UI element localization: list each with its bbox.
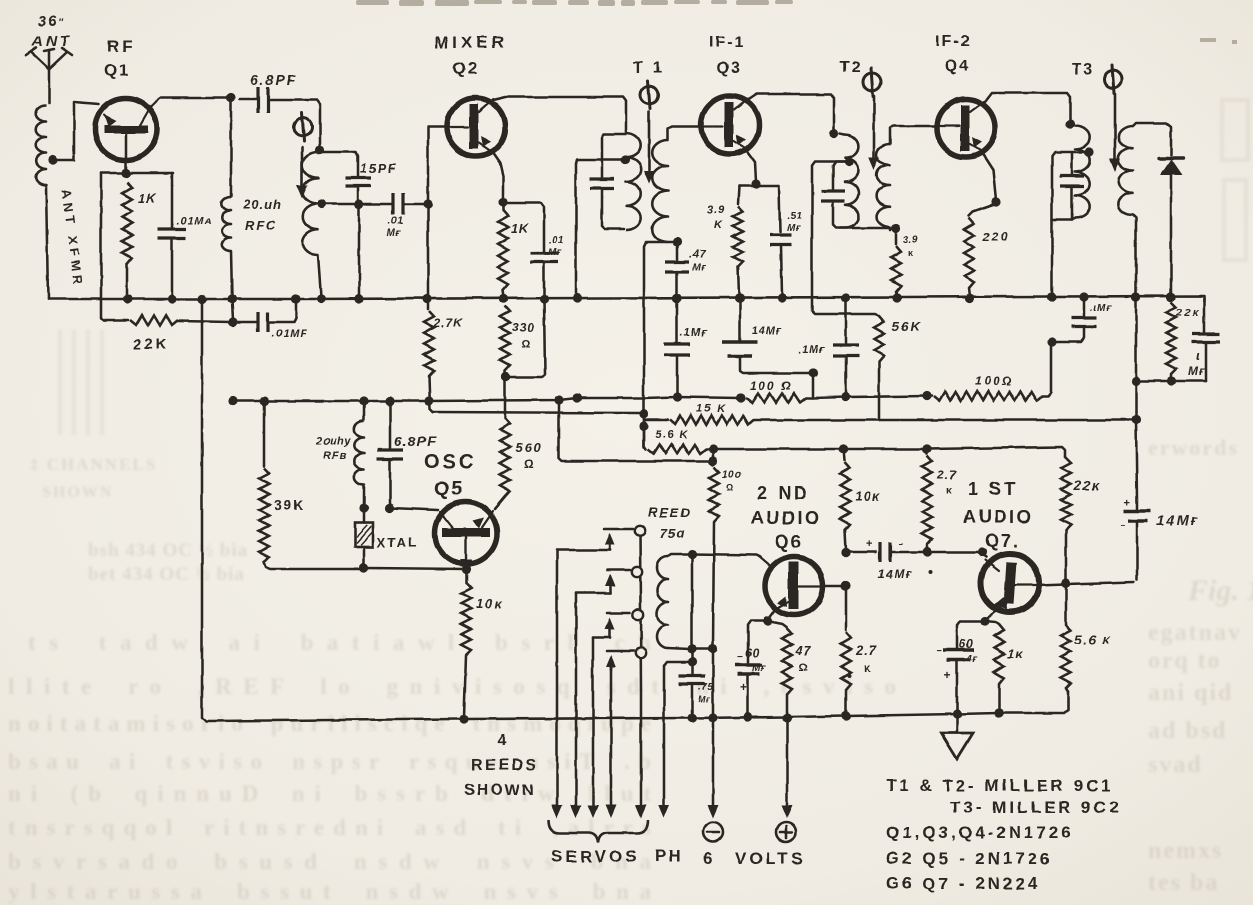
capacitor .51MF [770,235,792,303]
crystal XTAL [355,508,373,573]
svg-text:.01: .01 [549,235,564,246]
svg-text:1K: 1K [511,221,530,236]
svg-text:1K: 1K [138,191,157,206]
svg-text:10օ: 10օ [722,470,741,481]
svg-text:Fig. 1: Fig. 1 [1187,574,1253,607]
svg-text:2.7K: 2.7K [433,316,464,330]
servo line 2 [571,593,582,818]
label ANT XFMR [59,189,86,289]
label 56K [892,319,922,334]
label 14MF a [752,325,783,337]
transformer T2 secondary [877,126,936,230]
bus bottom horizontal [460,691,1068,719]
svg-text:−: − [898,539,903,549]
resistor R 22K (Q7 base) [1061,457,1071,588]
svg-text:220: 220 [982,230,1009,244]
svg-text:14Mғ: 14Mғ [878,567,913,581]
svg-text:10ᴋ: 10ᴋ [476,596,504,611]
label 5.6K h [655,429,689,441]
svg-text:75ɑ: 75ɑ [660,526,685,541]
label 22K det [1175,307,1200,319]
resistor R 56K [874,314,884,420]
svg-text:2 ND: 2 ND [757,483,810,503]
svg-text:Q2: Q2 [452,59,479,78]
svg-text:Q6: Q6 [775,532,803,552]
wire Q6 collector [821,581,850,590]
label 220 [982,230,1009,244]
svg-text:Mғ: Mғ [692,263,706,274]
parts list line 3 [886,823,1074,842]
svg-text:−: − [1120,521,1125,530]
bus main horizontal [48,296,1204,332]
svg-text:tes ba: tes ba [1148,870,1219,896]
wire Q4 collector to T3 [985,93,1075,129]
reed relay coil [657,549,697,722]
choke 20uhy RFC [354,401,368,513]
svg-text:ᴋ: ᴋ [946,485,952,496]
svg-text:bsh 434 OC ½ bia: bsh 434 OC ½ bia [88,540,248,561]
svg-text:SERVOS: SERVOS [551,847,640,866]
wire Q3 emitter node [738,150,780,232]
svg-text:560: 560 [515,440,543,455]
svg-text:39K: 39K [274,497,306,513]
svg-text:PH: PH [655,846,683,865]
svg-text:330: 330 [512,320,535,334]
label 1K mixer [511,221,530,236]
capacitor .1MF (IF bypass 2) [833,293,859,401]
svg-text:15PF: 15PF [360,161,397,176]
svg-text:.51: .51 [787,211,802,222]
label 20.uh RFC [242,197,282,233]
svg-text:Mғ: Mғ [698,694,711,704]
svg-text:REED: REED [648,505,692,520]
label 6.8PF osc [394,433,436,449]
label 2.7K q6 [855,643,877,675]
label 47 q6 [794,643,811,674]
svg-text:6.8PF: 6.8PF [394,433,436,449]
diode detector [1159,158,1183,302]
svg-text:22ᴋ: 22ᴋ [1073,478,1100,493]
svg-text:2օuhy: 2օuhy [315,435,351,447]
svg-text:RFʙ: RFʙ [323,450,347,462]
tuning slug symbol T3 [1104,65,1122,172]
label 100 vertical [722,470,741,493]
label 100 ohm b [975,374,1014,388]
avc line left segment [228,393,745,405]
svg-text:Ω: Ω [524,457,534,471]
svg-text:6: 6 [703,849,712,868]
resistor R 3.9 (T2) [891,228,902,303]
svg-text:60: 60 [959,637,973,651]
capacitor T3 tank [1047,152,1089,302]
svg-text:AUDIO: AUDIO [963,507,1034,527]
svg-text:100 Ω: 100 Ω [750,379,793,393]
resistor R 22K (detector load) [1166,292,1176,381]
svg-text:Q3: Q3 [716,60,741,77]
label IF-1 Q3 [709,34,745,77]
capacitor .01MF (Q1 emitter) [158,173,186,304]
label T1 [633,60,665,77]
svg-text:ani qid: ani qid [1148,680,1233,706]
parts list line 2 [950,798,1121,817]
svg-text:T2: T2 [840,59,863,76]
svg-text:3.9: 3.9 [707,204,725,216]
svg-text:Q4: Q4 [945,58,970,75]
svg-text:.01MF: .01MF [272,328,308,340]
svg-text:SHOWN: SHOWN [42,484,113,501]
wire Q4 emitter [969,153,1001,216]
svg-text:.1Mғ: .1Mғ [680,327,708,339]
svg-text:60: 60 [745,646,759,660]
svg-text:15 K: 15 K [696,403,727,415]
svg-text:14Mғ: 14Mғ [1157,512,1199,528]
label 560 [515,440,543,471]
wire T1 top feed [572,160,625,303]
svg-text:ɩ: ɩ [1196,348,1200,363]
svg-text:.75: .75 [698,682,713,693]
resistor R 2.7K [422,206,434,412]
label 10K osc [476,596,504,611]
label .51MF [787,211,802,234]
svg-text:‡ CHANNELS: ‡ CHANNELS [30,455,157,474]
svg-text:5.6 ᴋ: 5.6 ᴋ [1075,632,1112,647]
wire Q7 base [927,547,987,557]
svg-text:RFC: RFC [245,218,278,233]
label .1MF c [1090,303,1113,314]
wire left vertical drop [197,294,460,721]
transistor Q4 (IF-2) [937,99,995,157]
svg-text:14Mғ: 14Mғ [752,325,783,337]
label 22K q7 [1073,478,1100,493]
label 36 ANT [31,13,72,50]
label 14MF out [1157,512,1199,528]
ground symbol [941,714,973,759]
label 10K q6 [855,489,881,504]
label 1K [138,191,157,206]
capacitor .01MF (mixer input) [359,193,433,215]
resistor R 1K (Q1 emitter) [101,173,173,304]
label IF-2 Q4 [935,33,971,75]
capacitor .75MF [679,676,705,684]
svg-text:G6 Q7 - 2N224: G6 Q7 - 2N224 [886,874,1040,893]
svg-text:RF: RF [107,37,136,56]
wire det load join [1136,376,1206,385]
resistor R 10K (Q6 base) [839,444,850,557]
svg-text:Q1: Q1 [104,61,131,80]
transformer T2 primary [840,134,859,228]
label SERVOS [551,847,640,866]
svg-text:VOLTS: VOLTS [735,849,805,868]
label 15K [696,403,727,415]
label 1MF [1188,348,1206,378]
tuning slug symbol T2 [863,68,881,170]
capacitor 14MF (AVC) [722,293,818,396]
wire Q6 emitter node [763,609,776,626]
svg-text:Ω: Ω [726,483,733,493]
minus 6V line [708,449,717,466]
svg-text:.ɩMғ: .ɩMғ [1090,303,1113,314]
svg-text:5.6 K: 5.6 K [655,429,689,441]
wire Q7 emitter node [980,614,992,626]
wire Q1 collector to 6.8PF node [150,93,236,108]
svg-text:6.8PF: 6.8PF [250,72,297,88]
tuning slug symbol (RF coil) [294,113,312,198]
line B from 2.7K [433,412,644,414]
osc emitter line [364,564,471,573]
resistor R 5.6K (Q7) [1061,583,1071,691]
capacitor 14MF coupling [841,538,925,562]
wire Q2 emitter [491,150,508,207]
capacitor .47MF [665,242,689,303]
transistor Q6 (2nd audio) [758,556,823,615]
svg-text:Q1,Q3,Q4-2N1726: Q1,Q3,Q4-2N1726 [886,823,1074,842]
capacitor 1MF [1192,334,1220,381]
wire Q7 collector [1037,578,1134,587]
wire long right vertical [1131,292,1140,500]
servo common vertical [636,531,647,818]
svg-text:+: + [866,538,872,550]
svg-text:.01Mᴀ: .01Mᴀ [176,215,212,227]
wire T2 tap to 56K [812,162,876,314]
label XTAL [377,535,418,550]
svg-text:ANT: ANT [31,33,72,50]
svg-text:+: + [944,668,951,682]
wire Q2 base [428,127,447,204]
svg-text:Mғ: Mғ [548,247,562,258]
capacitor .1MF (IF bypass 1) [664,293,690,401]
label 330 [512,320,535,350]
antenna 36-inch whip [26,48,72,103]
label 22K [133,336,170,353]
svg-text:.47: .47 [689,249,706,261]
resistor R 47 (Q6) [768,621,792,715]
parts list line 1 [886,776,1114,795]
label REED 75 [648,505,692,541]
label .1MF a [680,327,708,339]
resistor R 2.7K (Q7 base) [922,444,932,574]
svg-text:Mғ: Mғ [752,663,766,674]
svg-text:Mғ: Mғ [387,228,401,239]
label 1K q7 [1007,646,1024,661]
label PH [655,846,683,865]
resistor R 2.7K (Q6) [841,581,851,720]
svg-text:svad: svad [1148,752,1203,778]
svg-text:egatnav: egatnav [1148,620,1242,646]
label OSC Q5 [424,451,476,500]
reed contact 1 [557,526,645,550]
svg-text:4: 4 [497,732,506,749]
svg-text:K: K [714,219,723,231]
svg-text:100Ω: 100Ω [975,374,1014,388]
svg-text:+: + [740,680,747,694]
resistor R 10K (osc) [459,569,471,724]
svg-text:−: − [737,652,743,663]
servo line 3 [588,637,599,818]
label 6.8PF [250,72,297,88]
capacitor 14MF (output) [1120,497,1151,580]
parts list line 5 [886,874,1040,893]
svg-text:T 1: T 1 [633,60,665,77]
svg-text:XTAL: XTAL [377,535,418,550]
capacitor 6.8PF (osc) [377,401,403,513]
transistor Q1 (RF) [95,98,157,160]
label T3 [1072,61,1095,78]
brace servos [549,820,648,843]
resistor R 5.6K (horizontal) [644,426,718,454]
svg-text:Ω: Ω [521,338,530,350]
svg-text:1ᴋ: 1ᴋ [1007,646,1024,661]
coil L1 antenna transformer [36,105,48,299]
svg-text:T3: T3 [1072,61,1095,78]
capacitor 15PF [320,152,371,203]
label 6 VOLTS [703,849,805,868]
svg-text:56K: 56K [892,319,922,334]
servo line 4 [606,668,617,818]
label 1ST AUDIO Q7 [963,479,1034,551]
capacitor .01MF (Q2 emitter) [503,203,558,377]
transformer T3 secondary [1118,123,1171,302]
svg-text:erwords: erwords [1148,435,1239,460]
wire antenna tap to Q1 base [48,102,99,165]
svg-text:SHOWN: SHOWN [464,782,535,799]
svg-text:T1 & T2- MILLER 9C1: T1 & T2- MILLER 9C1 [886,776,1114,795]
capacitor 60MF (Q7) [936,621,985,719]
battery minus terminal [703,822,723,842]
wire Q2 collector to T1 [494,97,626,131]
svg-text:1 ST: 1 ST [968,479,1018,499]
label 14MF coupling [878,567,913,581]
svg-text:Mғ: Mғ [1188,364,1206,378]
svg-text:Mғ: Mғ [787,223,801,234]
svg-text:bet 434 OC ½ bia: bet 434 OC ½ bia [88,564,245,585]
avc mid segment [813,391,932,400]
label 2.7K [433,316,464,330]
svg-text:nemxs: nemxs [1148,838,1223,864]
label .01MF [272,328,308,340]
wire Q6 base [692,554,760,557]
svg-text:2.7: 2.7 [936,468,957,482]
label .01MA [176,215,212,227]
capacitor 6.8PF coupling [240,87,320,148]
wire RF coil tap [317,199,363,303]
svg-text:OSC: OSC [424,451,476,473]
svg-text:MIXER: MIXER [434,33,508,52]
resistor R 100 vertical [692,467,719,818]
transformer T1 primary [620,131,640,230]
parts list line 4 [886,849,1053,868]
label 39K [274,497,306,513]
resistor R 100 (avc 2) [934,329,1084,401]
transistor Q3 (IF-1) [701,96,759,154]
label .75MF [698,682,713,704]
battery plus terminal [776,822,796,842]
svg-text:−: − [936,646,942,657]
svg-text:Q5: Q5 [434,478,465,500]
choke 20.uh RFC [222,98,237,320]
capacitor .01MF (AGC line) [235,294,301,332]
transistor Q7 (1st audio) [981,554,1039,614]
osc node line [263,401,266,466]
svg-text:G2 Q5 - 2N1726: G2 Q5 - 2N1726 [886,849,1053,868]
label .47MF [689,249,706,274]
label 100 ohm a [750,379,793,393]
svg-text:Ω: Ω [799,662,808,674]
servo line 1 [552,550,563,818]
label 20uhy RFC [315,435,351,462]
reed contact 4 [606,648,646,670]
wire avc to minus rail [559,400,709,461]
svg-text:22K: 22K [133,336,170,353]
label RF Q1 [104,37,136,80]
svg-text:2.7: 2.7 [855,643,877,658]
label T2 [840,59,863,76]
svg-text:AUDIO: AUDIO [751,508,822,528]
tuning slug symbol T1 [640,81,658,184]
label 15PF [360,161,397,176]
wire PH line [659,662,693,818]
wire Q3 collector to T2 [748,94,839,139]
transformer T1 secondary [652,126,699,247]
wire Q1 base bias drop [101,173,104,320]
capacitor T2 tank [821,157,901,232]
svg-text:.4ғ: .4ғ [963,654,978,665]
wire T1 bottom to AVC [639,242,666,447]
audio node line [713,444,1065,457]
resistor R 330 [499,294,510,381]
label 5.6K q7 [1075,632,1112,647]
resistor R 15K (horizontal) [644,415,1141,425]
wire Q1 emitter [121,134,130,178]
svg-text:ᴋ: ᴋ [864,661,871,675]
label .01 MF [387,216,403,239]
capacitor T1 tank [590,134,626,229]
resistor R 1K (Q7) [985,621,1004,718]
transistor Q5 (oscillator) [435,502,497,572]
label 60MF q7 [959,637,978,665]
capacitor .1MF (det bypass) [1071,292,1097,327]
svg-text:REEDS: REEDS [471,757,539,774]
svg-text:orq to: orq to [1148,648,1222,674]
coil L2 RF interstage [302,145,325,303]
svg-text:.1Mғ: .1Mғ [798,344,826,356]
label MIXER Q2 [434,33,508,78]
capacitor 60MF (Q6) [735,621,768,722]
svg-text:+: + [1124,497,1130,509]
svg-text:Q7.: Q7. [985,531,1020,551]
resistor R 39K [259,468,362,569]
resistor R 1K (Q2 emitter) [498,202,509,304]
reed contact 3 [593,610,643,637]
label 3.9 T2 [903,235,918,258]
svg-text:T3- MILLER 9C2: T3- MILLER 9C2 [950,798,1121,817]
label 4 REEDS SHOWN [464,732,539,799]
label 60MF q6 [745,646,766,674]
plus 6V line [782,713,793,818]
resistor R 220 [964,218,975,303]
svg-text:IF-2: IF-2 [935,33,971,50]
transistor Q2 (mixer) [447,98,505,156]
resistor R 560 [495,372,511,509]
resistor R 3.9K (Q3) [733,206,744,303]
svg-text:20.uh: 20.uh [242,197,282,212]
label 3.9K [707,204,725,231]
reed contact 2 [576,567,642,593]
svg-text:IF-1: IF-1 [709,34,745,51]
label .1MF b [798,344,826,356]
svg-text:10ᴋ: 10ᴋ [855,489,881,504]
transformer T3 primary [1070,124,1094,220]
wire osc base [390,508,438,510]
